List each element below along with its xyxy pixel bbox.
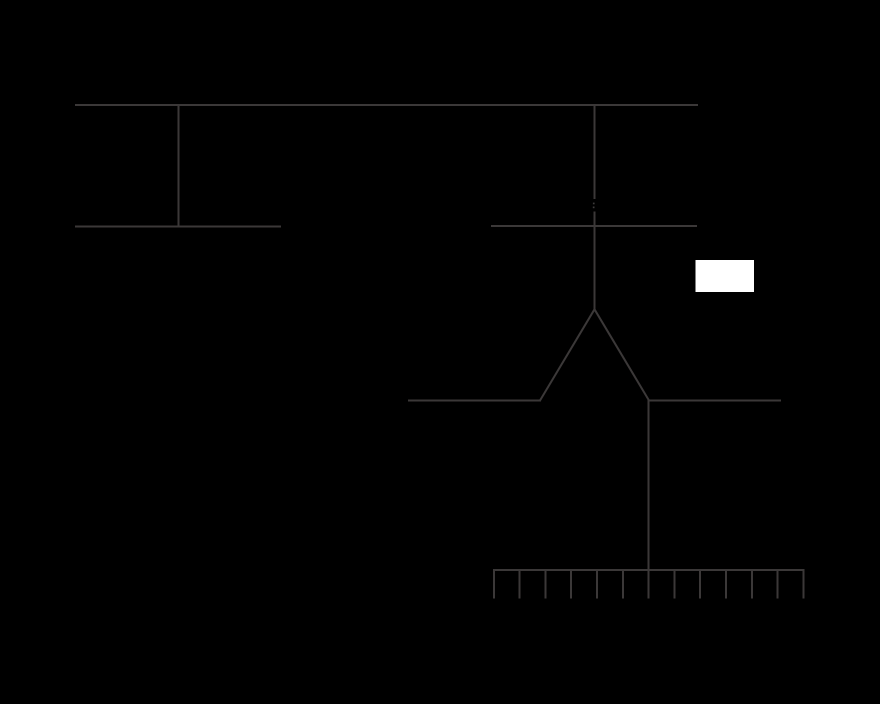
- wire fork right leg: [595, 309, 650, 400]
- wire lower-left bar: [408, 400, 541, 402]
- node highlight box: [696, 260, 755, 292]
- wire descend drop: [648, 400, 650, 571]
- wire fork left leg: [540, 309, 595, 400]
- glyph remnant dots on center drop: [593, 203, 595, 209]
- wire center drop upper: [594, 104, 596, 199]
- wire left child bar: [75, 226, 281, 228]
- wire right child bar: [491, 225, 697, 227]
- wire comb bar: [493, 569, 805, 571]
- wire center drop lower: [594, 212, 596, 311]
- comb ticks: [494, 569, 804, 599]
- wire top couple bar: [75, 104, 698, 106]
- wire lower-right bar: [649, 400, 781, 402]
- wire left drop: [177, 104, 179, 228]
